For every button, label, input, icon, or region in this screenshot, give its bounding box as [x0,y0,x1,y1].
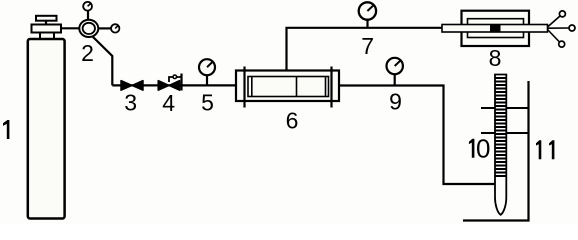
wire regulator diagonal down [93,37,113,86]
svg-text:4: 4 [162,90,175,116]
valve 3 [121,81,143,91]
gauge 9 [387,58,403,74]
gauge 5 stem [206,75,208,85]
label 10 [469,134,491,164]
label 1 [3,120,9,139]
svg-text:8: 8 [489,45,502,71]
regulator 2 right gauge stem [98,27,111,29]
vessel 6 inner tube [248,77,329,97]
wire cylinder to regulator [61,27,80,29]
furnace 8 sample [490,25,501,33]
svg-text:2: 2 [81,40,94,66]
regulator 2 body [79,20,98,37]
regulator 2 top gauge [83,2,92,11]
gauge 7 stem [366,20,368,28]
furnace 8 wire middle [548,27,570,29]
label 11 [536,140,554,159]
gas cylinder 1 valve body [32,25,62,33]
svg-text:6: 6 [286,108,299,134]
beaker 11 water line upper [481,107,529,109]
vessel 6 inner right cap line [325,77,327,97]
regulator 2 top gauge stem [87,11,89,20]
furnace 8 wire top [548,16,561,27]
vessel 6 inner divider [296,77,298,97]
wire vessel to gauge 9 line [339,86,495,185]
regulator 2 right gauge [111,24,119,32]
svg-text:9: 9 [389,89,402,115]
svg-text:7: 7 [361,33,374,59]
gas cylinder 1 body [28,39,65,219]
vessel 6 outer shell [236,71,339,102]
furnace 8 outer box [462,11,530,46]
beaker 11 water line lower [481,132,529,134]
gas cylinder 1 handle stem [45,21,47,25]
wire main pipe to vessel [112,84,237,86]
vessel 6 right flange [330,67,332,108]
gauge 9 stem [394,74,396,86]
beaker 11 right wall [463,81,529,221]
gauge 5 [199,59,215,75]
furnace 8 terminal bottom [559,41,565,47]
burette 10 tube outline [495,75,506,215]
svg-text:3: 3 [124,90,137,116]
svg-text:5: 5 [201,90,214,116]
gas cylinder 1 handle [36,16,57,21]
valve 4 [158,74,181,91]
furnace 8 wire bottom [548,30,560,43]
gas cylinder 1 neck [40,33,54,40]
vessel 6 inner left cap line [251,77,253,97]
furnace 8 tube [442,25,548,33]
vessel 6 left flange [243,67,245,108]
wire vessel to top manifold [287,28,443,71]
furnace 8 terminal middle [569,25,575,31]
gauge 7 [359,2,376,19]
furnace 8 inner box [468,19,524,38]
furnace 8 terminal top [559,11,565,17]
burette 10 graduations [495,78,506,176]
svg-text:0: 0 [476,134,490,164]
